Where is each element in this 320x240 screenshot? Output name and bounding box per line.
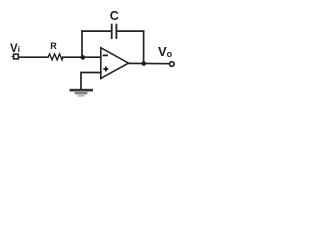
wire resistor to op-amp inverting input [63,56,101,58]
wire feedback vertical right [143,31,145,63]
svg-text:C: C [110,9,119,23]
node Vo terminal [170,62,175,67]
op-amp minus pin label [103,55,108,57]
wire feedback top right [117,30,144,32]
node junction dot at inverting input [81,55,86,60]
op-amp U1 triangle [101,48,129,79]
wire stub left of Vi terminal [12,56,13,58]
svg-text:Vi: Vi [10,43,20,55]
wire feedback vertical left [81,31,83,57]
capacitor C plates [111,25,113,38]
wire op-amp output [129,62,169,64]
op-amp plus pin label [103,67,108,72]
wire feedback top left [82,30,112,32]
ground [70,89,94,97]
wire non-inverting input and down to ground [81,73,101,90]
node Vi terminal [14,54,19,59]
wire Vi to resistor [19,56,48,58]
node junction dot at output [142,61,147,66]
svg-text:R: R [50,41,57,51]
svg-text:Vo: Vo [158,44,173,59]
resistor R [48,54,63,60]
